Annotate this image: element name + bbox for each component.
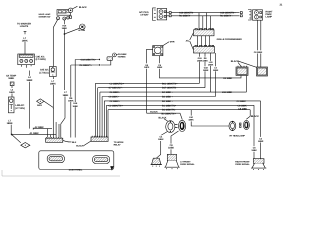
svg-text:18BK: 18BK bbox=[7, 122, 13, 125]
terminal T3 bbox=[240, 12, 242, 14]
svg-text:18BK: 18BK bbox=[22, 39, 28, 42]
node bar2 right label bbox=[114, 141, 124, 147]
node L7 18BK label bbox=[7, 119, 13, 125]
node BLACK left HL label bbox=[159, 116, 167, 119]
node L7 18BK mid label bbox=[62, 90, 68, 97]
node HL1 ground label bbox=[158, 135, 164, 141]
connector C3 body bbox=[253, 10, 263, 20]
svg-text:18PK: 18PK bbox=[144, 66, 150, 69]
connector oval O2 bbox=[93, 156, 110, 164]
svg-text:MTR: MTR bbox=[170, 40, 175, 43]
svg-text:18BK: 18BK bbox=[50, 83, 56, 86]
svg-text:L50 18BK: L50 18BK bbox=[222, 91, 233, 94]
node C5 drop labels bbox=[197, 57, 219, 72]
node L50 label bbox=[222, 91, 233, 94]
svg-text:18BR: 18BR bbox=[258, 140, 264, 143]
node A/C label bbox=[139, 11, 149, 17]
node 6A TEMP label bbox=[6, 75, 16, 81]
svg-text:C2 18BK/TN •: C2 18BK/TN • bbox=[109, 104, 123, 107]
node HL2 label bbox=[230, 134, 246, 137]
svg-text:C8 18BK: C8 18BK bbox=[223, 77, 233, 80]
wire label to junction dot bbox=[64, 29, 66, 33]
ground G1 bbox=[151, 158, 163, 166]
node H15 label bbox=[62, 25, 68, 30]
connector C7 bbox=[257, 67, 268, 76]
node G18 drop label bbox=[73, 102, 79, 108]
svg-text:18BK: 18BK bbox=[251, 149, 257, 152]
wire dimmer pinB down bbox=[63, 20, 65, 24]
svg-text:B0 18BK/TN •: B0 18BK/TN • bbox=[162, 113, 176, 116]
wire row5 bbox=[104, 100, 260, 102]
wire K1 bottom pin bbox=[159, 56, 161, 64]
wire dimmer pinA down bbox=[53, 20, 57, 67]
svg-text:(LT BLU): (LT BLU) bbox=[39, 71, 49, 74]
svg-text:C8 18BK •: C8 18BK • bbox=[109, 96, 120, 99]
node A1 label bbox=[30, 132, 40, 135]
svg-text:G18 18BK/TN: G18 18BK/TN bbox=[179, 12, 193, 15]
svg-text:18BK: 18BK bbox=[62, 94, 68, 97]
wire bar1 risers bbox=[48, 122, 59, 138]
wire BLACK bar leader bbox=[84, 141, 92, 146]
connector C6 bbox=[236, 66, 248, 76]
wire marker stub bbox=[24, 31, 27, 34]
node page number bbox=[280, 4, 283, 7]
node park drop label bbox=[168, 144, 174, 150]
node L7 label under L2 bbox=[50, 80, 56, 86]
beam select indicator B1 bbox=[80, 24, 86, 30]
svg-text:BLACK: BLACK bbox=[231, 60, 239, 63]
wire row1 bbox=[96, 82, 200, 84]
svg-text:C2 18BK/RD •: C2 18BK/RD • bbox=[110, 82, 125, 85]
node row3 labels bbox=[110, 91, 173, 94]
node C1 label bbox=[36, 55, 46, 61]
wire R6 horizontal left bbox=[71, 60, 111, 137]
node L1 label bbox=[15, 104, 25, 110]
wire L4 vertical bbox=[28, 71, 30, 129]
switch SW1 dimmer body bbox=[57, 8, 73, 20]
svg-text:(LT GRN): (LT GRN) bbox=[36, 58, 46, 61]
wire HL1 ground drop bbox=[156, 132, 167, 159]
svg-text:B1 18BK/TN •: B1 18BK/TN • bbox=[162, 104, 176, 107]
node BLK label bbox=[72, 141, 77, 144]
connector C2 body bbox=[157, 9, 167, 20]
svg-text:18BK: 18BK bbox=[213, 69, 219, 72]
svg-text:18BK: 18BK bbox=[8, 77, 14, 80]
node grille point label bbox=[186, 39, 190, 42]
wire junction to splice diamond bbox=[12, 135, 21, 143]
connector C1 left park lamp bbox=[18, 54, 35, 68]
node row7 labels bbox=[162, 109, 194, 122]
svg-text:DIMMER SW: DIMMER SW bbox=[39, 15, 51, 18]
wire row4 bbox=[102, 96, 215, 98]
node row4 labels bbox=[109, 96, 173, 99]
svg-text:18BK: 18BK bbox=[157, 66, 163, 69]
wire L2 down to splice bbox=[52, 77, 54, 110]
node BLACK right HL label bbox=[251, 115, 259, 118]
node grille bracket bbox=[190, 33, 194, 50]
svg-text:(LT TAN): (LT TAN) bbox=[15, 107, 25, 110]
node dimmer label bbox=[39, 13, 51, 18]
wire K1 left pin bbox=[147, 49, 153, 63]
node row6 labels bbox=[109, 104, 248, 107]
wire L50 row up to C6 bbox=[211, 76, 247, 93]
terminal T1 bbox=[169, 12, 171, 14]
svg-text:C4 18BK: C4 18BK bbox=[237, 100, 247, 103]
node row2 labels bbox=[109, 87, 178, 90]
node right drop labels bbox=[251, 137, 264, 152]
svg-text:18BK: 18BK bbox=[203, 69, 209, 72]
splice S1 diamond bbox=[37, 99, 44, 104]
headlamp HL2 front bbox=[229, 121, 241, 131]
svg-text:LAMP: LAMP bbox=[266, 16, 273, 19]
node L4 label bbox=[26, 76, 32, 82]
svg-text:18BK: 18BK bbox=[168, 147, 174, 150]
svg-text:DASH PANEL: DASH PANEL bbox=[69, 169, 83, 172]
wire C4 to C5 bbox=[198, 36, 210, 47]
node K1 bottom wire label bbox=[157, 64, 163, 69]
svg-text:18BK: 18BK bbox=[202, 59, 208, 62]
wire BLACK leader bbox=[164, 119, 168, 121]
node row8 labels bbox=[150, 111, 176, 116]
ground G2 arrow bbox=[111, 166, 114, 170]
svg-text:R6 18BK/Y: R6 18BK/Y bbox=[179, 15, 191, 18]
wire K1 to label bbox=[163, 42, 169, 46]
node K1 feed label bbox=[170, 40, 175, 43]
svg-text:C8 18BK: C8 18BK bbox=[238, 104, 248, 107]
connector C8 left park bbox=[167, 154, 176, 160]
wire B1 to J2 bbox=[65, 28, 79, 34]
connector bar2 bbox=[91, 136, 108, 142]
wire splice to bus bbox=[44, 101, 53, 137]
wire row6 bbox=[107, 104, 255, 106]
headlamp HL1 left bbox=[166, 120, 186, 132]
wire R6 top bbox=[167, 15, 240, 17]
terminal T2 bbox=[169, 15, 171, 17]
node junction J1 bbox=[11, 134, 13, 136]
connector oval O1 bbox=[47, 155, 64, 163]
node grille label bbox=[217, 38, 243, 41]
wire row6 corner down right park bbox=[253, 105, 255, 158]
headlamp HL2 rear bbox=[243, 120, 249, 129]
connector C4 upper bbox=[194, 29, 215, 36]
dash panel box bbox=[39, 151, 114, 170]
page corner marks bbox=[2, 170, 120, 176]
wire bottom pin to right run bbox=[160, 69, 242, 78]
splice S2 diamond bbox=[21, 143, 30, 148]
lamp LP2 right park trapezoid bbox=[251, 163, 266, 170]
node G18 end dot bbox=[99, 59, 100, 60]
node BLACK bar label bbox=[76, 145, 84, 148]
svg-text:BLACK: BLACK bbox=[76, 145, 84, 148]
svg-text:B3 18BK •: B3 18BK • bbox=[162, 96, 173, 99]
svg-text:18BK: 18BK bbox=[188, 119, 194, 122]
node dash panel label bbox=[69, 169, 83, 172]
svg-text:RT HEADLAMP: RT HEADLAMP bbox=[230, 134, 246, 137]
wire HL1 to park lamp bbox=[171, 131, 179, 154]
node BLACK label bbox=[79, 6, 87, 9]
node BLK label bbox=[22, 37, 28, 42]
wire row5 corner down right park bbox=[260, 101, 262, 159]
lamp L2 bbox=[50, 67, 57, 77]
lamp LP1 left park trapezoid bbox=[164, 161, 179, 170]
svg-text:C8 18BK: C8 18BK bbox=[238, 107, 247, 110]
svg-text:B01 18BK/TN •: B01 18BK/TN • bbox=[162, 82, 178, 85]
svg-text:HORNS: HORNS bbox=[118, 55, 126, 58]
svg-text:18BK: 18BK bbox=[208, 64, 214, 67]
connector C9 right park bbox=[253, 159, 264, 164]
svg-text:A/C: A/C bbox=[186, 39, 190, 42]
node C3 drop label bbox=[254, 50, 263, 54]
svg-text:G18 18BK/TN •: G18 18BK/TN • bbox=[81, 59, 97, 62]
lamp L1 side marker bbox=[8, 97, 14, 113]
node junction J2 bbox=[64, 33, 66, 35]
node S1 label bbox=[37, 104, 43, 107]
wire dimmer to BLACK bbox=[72, 6, 77, 9]
wire row7 bbox=[108, 110, 250, 126]
node K1 left wire label bbox=[144, 64, 150, 69]
wire BLACK leader to C6 bbox=[238, 61, 257, 68]
node R6 top labels bbox=[179, 15, 233, 18]
node row7 right label bbox=[238, 107, 247, 110]
wire A1 bbox=[12, 134, 56, 136]
svg-text:S201: S201 bbox=[37, 104, 43, 107]
svg-text:A2 18BK: A2 18BK bbox=[35, 126, 45, 129]
wire ladder left drops into bar2 bbox=[96, 83, 109, 137]
terminal T4 bbox=[240, 15, 242, 17]
wire fuse to lamp L1 bbox=[11, 86, 13, 97]
wire G18 horizontal left bbox=[75, 60, 98, 138]
wire drops from C3 bbox=[258, 21, 261, 68]
fuse F1 bbox=[10, 82, 14, 86]
svg-text:C2 18BK •: C2 18BK • bbox=[110, 100, 121, 103]
node R6 drop label bbox=[68, 97, 74, 103]
svg-text:B17 18BK/TB •: B17 18BK/TB • bbox=[162, 87, 178, 90]
node C8 run label bbox=[223, 77, 233, 80]
svg-text:C6 18BK •: C6 18BK • bbox=[110, 91, 121, 94]
svg-text:RELAY: RELAY bbox=[114, 144, 122, 147]
svg-text:18BR: 18BR bbox=[9, 91, 15, 94]
node BLACK C6 label bbox=[231, 60, 239, 63]
wire lamp to junction bbox=[10, 125, 12, 135]
connector C3 right park bracket bbox=[248, 10, 251, 21]
node LP1 label bbox=[180, 161, 195, 167]
wire to connector C1 bbox=[24, 42, 26, 54]
svg-text:BLACK: BLACK bbox=[79, 6, 87, 9]
node B1 label bbox=[78, 29, 85, 32]
wire horn block to label bbox=[116, 53, 117, 55]
svg-text:G7 18BK/GY •: G7 18BK/GY • bbox=[109, 87, 124, 90]
svg-text:B4 18BK •: B4 18BK • bbox=[162, 91, 173, 94]
node G18 top labels bbox=[179, 12, 236, 15]
node R6 end dot bbox=[99, 64, 100, 65]
node LP2 label bbox=[235, 160, 250, 166]
svg-text:18BK: 18BK bbox=[158, 138, 164, 141]
svg-text:GRILLE CROSSMEMBER: GRILLE CROSSMEMBER bbox=[217, 38, 243, 41]
svg-text:BLACK: BLACK bbox=[150, 111, 158, 114]
svg-text:B2 18BK •: B2 18BK • bbox=[162, 100, 173, 103]
node R6 left label bbox=[80, 64, 93, 67]
svg-text:18BK: 18BK bbox=[73, 105, 79, 108]
node right park label bbox=[266, 10, 274, 18]
wire A2 bbox=[33, 128, 52, 130]
node A2 label bbox=[35, 126, 45, 129]
wire C5 drops bbox=[200, 53, 216, 97]
node G18 left label bbox=[81, 59, 97, 62]
wire to bar1 bbox=[61, 97, 65, 138]
svg-text:PARK SIGNAL: PARK SIGNAL bbox=[180, 163, 195, 166]
connector C2 bracket bbox=[153, 8, 156, 21]
wire G18 top bbox=[167, 12, 240, 14]
node horn label bbox=[118, 53, 127, 58]
wire BLK leader bbox=[63, 140, 72, 142]
svg-text:C8 18BK: C8 18BK bbox=[254, 51, 263, 54]
svg-text:PARK: PARK bbox=[266, 13, 273, 16]
wire left pin down to row8 bbox=[146, 69, 148, 114]
svg-text:R6 18BK/Y •: R6 18BK/Y • bbox=[80, 64, 93, 67]
svg-text:G18 18BK/TN •: G18 18BK/TN • bbox=[220, 12, 236, 15]
relay K1 bbox=[153, 46, 163, 56]
svg-text:R6 18BK/Y •: R6 18BK/Y • bbox=[220, 15, 233, 18]
node L4 1BR label bbox=[9, 88, 15, 94]
svg-text:A1 18BK: A1 18BK bbox=[30, 132, 40, 135]
wire J2 down bbox=[64, 35, 66, 91]
svg-text:18BR: 18BR bbox=[26, 79, 32, 82]
svg-text:BLACK: BLACK bbox=[251, 115, 259, 118]
svg-text:BLACK: BLACK bbox=[159, 116, 167, 119]
wire row8 black bbox=[147, 113, 183, 119]
svg-text:LIGHTS: LIGHTS bbox=[20, 25, 29, 28]
node marker lights label bbox=[17, 22, 31, 28]
connector bar1 bbox=[46, 137, 63, 142]
wire drops from park wires bbox=[199, 13, 210, 30]
svg-text:HL DIM: HL DIM bbox=[78, 29, 85, 32]
svg-text:B1 18BK/TN •: B1 18BK/TN • bbox=[162, 109, 176, 112]
svg-text:14 WAY: 14 WAY bbox=[140, 14, 149, 17]
connector C5 lower bbox=[194, 45, 215, 53]
node row1 labels bbox=[110, 82, 178, 85]
svg-text:PARK SIGNAL: PARK SIGNAL bbox=[235, 163, 250, 166]
node row5 labels bbox=[110, 100, 247, 103]
connector horn feed block bbox=[107, 53, 116, 60]
svg-text:RIGHT: RIGHT bbox=[266, 10, 274, 13]
wire row2 bbox=[98, 87, 205, 89]
node L2 label bbox=[39, 69, 49, 75]
wire row3 bbox=[100, 91, 211, 93]
svg-text:BLK: BLK bbox=[72, 141, 77, 144]
